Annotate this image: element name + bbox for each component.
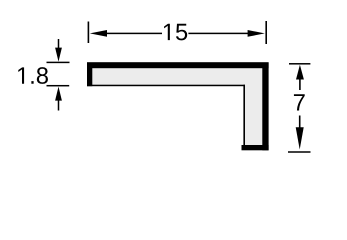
dimension 7: downward arrowhead — [296, 127, 304, 149]
dimension 7: upper dimension line segment — [299, 79, 301, 90]
dimension 7: bottom tick line — [288, 151, 311, 153]
dimension 7: upward arrowhead — [296, 65, 304, 80]
dimension 1.8: upper leader line — [58, 39, 60, 49]
dimension 1.8: downward arrowhead — [55, 48, 62, 62]
dimension 15: right dimension line segment — [188, 33, 248, 35]
L-profile left end cap (thick) — [87, 63, 92, 87]
L-profile bottom end cap (thick) — [242, 145, 269, 150]
dimension 1.8: upward arrowhead — [55, 87, 62, 101]
dimension 7: value label — [294, 94, 305, 110]
dimension 7: lower dimension line segment — [299, 116, 301, 129]
dimension 15: left dimension line segment — [106, 33, 162, 35]
L-profile top outer edge (thick) — [87, 62, 269, 68]
L-profile cross-section fill — [87, 63, 269, 151]
dimension 1.8: bottom tick line — [47, 85, 70, 87]
dimension 15: value label — [164, 24, 187, 41]
dimension 15: right arrowhead — [248, 30, 265, 37]
dimension 1.8: lower leader line — [58, 100, 60, 111]
dimension 1.8: value label — [18, 67, 48, 84]
dimension 15: right extension line — [265, 21, 267, 44]
L-profile leg inner edge line (thin) — [243, 85, 245, 145]
dimension 15: left extension line — [88, 22, 90, 44]
dimension 15: left arrowhead — [90, 30, 107, 37]
L-profile flange underside line (thin) — [87, 85, 245, 87]
dimension 1.8: top tick line — [47, 62, 70, 64]
dimension 7: top tick line — [289, 63, 310, 65]
L-profile right outer edge (thick) — [262, 63, 268, 151]
